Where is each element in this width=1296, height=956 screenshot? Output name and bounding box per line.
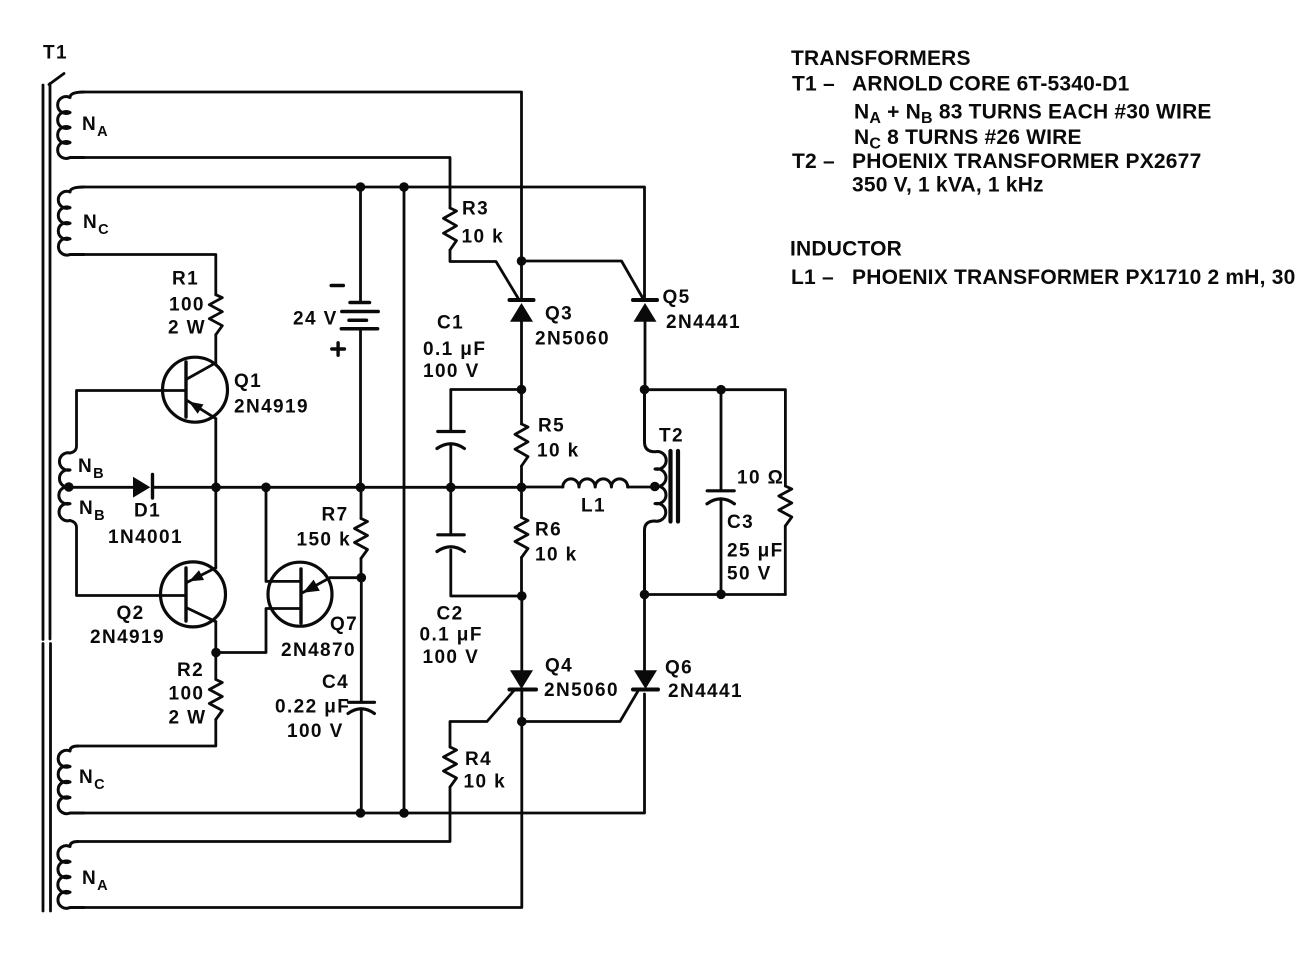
- svg-text:R3: R3: [462, 199, 489, 220]
- wire R5 bottom lead: [520, 466, 523, 487]
- svg-text:T1: T1: [43, 43, 68, 64]
- transformer T1 core line outer: [42, 85, 45, 911]
- svg-text:50 V: 50 V: [727, 564, 772, 585]
- T1 winding NC upper: [58, 187, 84, 255]
- node rail mid column junction: [399, 182, 409, 192]
- svg-text:Q4: Q4: [545, 656, 573, 677]
- wire Q4 anode lead: [520, 596, 523, 671]
- wire Q3 cathode row to Q5 gate: [522, 261, 644, 299]
- T1 winding NC lower: [58, 746, 84, 814]
- svg-text:2 W: 2 W: [168, 318, 206, 339]
- wire Q7 B2 lead: [266, 487, 301, 581]
- svg-text:0.1 μF: 0.1 μF: [423, 339, 486, 360]
- svg-text:0.22 μF: 0.22 μF: [275, 697, 350, 718]
- svg-text:INDUCTOR: INDUCTOR: [790, 238, 902, 261]
- wire center rail to battery column: [266, 486, 361, 489]
- wire Q1 emitter down to center rail: [214, 419, 217, 487]
- wire L1 to T2 centre tap: [628, 486, 655, 489]
- wire mid column rail to bottom rail: [403, 187, 406, 813]
- wire R1 to Q1 collector: [214, 335, 217, 363]
- transformer T1 core line inner: [49, 84, 52, 912]
- svg-text:PHOENIX TRANSFORMER PX1710 2 m: PHOENIX TRANSFORMER PX1710 2 mH, 30 A: [852, 266, 1296, 289]
- resistor R6: [515, 518, 528, 558]
- svg-text:C1: C1: [437, 313, 464, 334]
- wire Q7 emitter to R7-C4 node: [330, 576, 361, 579]
- wire R4 bottom to NA-lower top: [78, 787, 450, 842]
- battery minus sign: [331, 284, 343, 288]
- wire C1 bottom lead: [449, 446, 452, 488]
- svg-text:T2: T2: [659, 426, 684, 447]
- wire T2 bottom row: [645, 593, 786, 596]
- wire Q5 gate diagonal done above; Q5 cathode lead in rail: [643, 295, 646, 300]
- wire Q4 cathode lead: [520, 690, 523, 722]
- wire C3 top lead: [720, 390, 723, 491]
- wire R2 top lead: [214, 653, 217, 680]
- wire Q2 emitter up to center rail: [214, 487, 217, 568]
- transformer T2 primary winding: [645, 390, 667, 595]
- transistor Q7: [268, 562, 332, 626]
- wire C3 bottom lead: [720, 501, 723, 595]
- svg-text:350 V, 1 kVA, 1 kHz: 350 V, 1 kVA, 1 kHz: [852, 174, 1044, 197]
- wire Q3 anode lead: [520, 322, 523, 390]
- transistor Q2: [161, 562, 226, 627]
- svg-text:NC: NC: [83, 212, 109, 238]
- node bottom rail mid column junction: [399, 808, 409, 818]
- svg-text:10 Ω: 10 Ω: [737, 468, 784, 489]
- svg-text:C4: C4: [322, 672, 349, 693]
- svg-text:R4: R4: [465, 749, 492, 770]
- node C3 top junction: [716, 385, 726, 395]
- wire NC-top rail to Q5 cathode: [84, 187, 645, 295]
- svg-text:R2: R2: [177, 660, 204, 681]
- wire Q4 cathode row to Q6 gate: [522, 691, 638, 722]
- wire Q4 cathode column to NA-lower bottom: [84, 726, 522, 908]
- svg-text:10 k: 10 k: [535, 545, 578, 566]
- node T2 top junction: [640, 385, 650, 395]
- svg-text:C2: C2: [437, 604, 464, 625]
- wire R6 top lead: [520, 487, 523, 518]
- resistor R5: [515, 424, 528, 466]
- node Q4 cathode row junction: [517, 717, 527, 727]
- wire Q2 base to NB lower: [70, 521, 184, 596]
- thyristor Q5: [633, 300, 657, 322]
- svg-text:Q3: Q3: [545, 304, 573, 325]
- resistor R2: [209, 680, 222, 720]
- wire center rail to L1: [522, 486, 563, 489]
- svg-text:L1: L1: [581, 496, 606, 517]
- svg-text:2N4441: 2N4441: [666, 312, 741, 333]
- svg-text:2N5060: 2N5060: [535, 329, 610, 350]
- svg-text:2N4919: 2N4919: [234, 397, 309, 418]
- diode D1: [133, 475, 153, 499]
- battery 24V: [341, 303, 378, 329]
- battery plus sign: [332, 343, 345, 355]
- svg-text:2N4919: 2N4919: [90, 627, 165, 648]
- svg-text:10 k: 10 k: [462, 227, 505, 248]
- wire battery positive lead to center rail: [359, 329, 362, 487]
- svg-text:R1: R1: [172, 269, 199, 290]
- node R5-R6 junction: [517, 483, 527, 493]
- node battery bottom junction: [356, 483, 366, 493]
- svg-text:10 k: 10 k: [464, 772, 507, 793]
- svg-text:Q2: Q2: [117, 603, 145, 624]
- svg-text:D1: D1: [134, 501, 161, 522]
- svg-text:NA + NB 83 TURNS EACH #30 WIRE: NA + NB 83 TURNS EACH #30 WIRE: [854, 101, 1212, 128]
- wire R3 bottom to Q3 gate: [450, 250, 518, 298]
- wire Q2 collector to Q7 B1: [216, 609, 301, 653]
- wire center rail to Q7 B2 column: [216, 486, 266, 489]
- svg-text:NC: NC: [79, 767, 105, 793]
- node R7 C4 Q7-emitter junction: [357, 573, 367, 583]
- svg-text:1N4001: 1N4001: [108, 527, 183, 548]
- svg-text:NB: NB: [79, 498, 105, 524]
- wire bottom rail NC-lower to Q6 cathode: [84, 694, 645, 813]
- T1 winding NA lower: [58, 842, 84, 909]
- node C1 bottom junction: [446, 483, 456, 493]
- wire R6 bottom lead: [520, 558, 523, 597]
- T1 winding NB lower: [59, 487, 70, 521]
- svg-text:2N4870: 2N4870: [281, 640, 356, 661]
- resistor R1: [209, 295, 222, 335]
- svg-text:24 V: 24 V: [293, 309, 338, 330]
- svg-text:NA: NA: [82, 868, 108, 894]
- wire T2 top row to 10ohm top: [645, 390, 786, 486]
- capacitor C4: [348, 702, 375, 713]
- capacitor C1: [437, 432, 464, 449]
- T1 winding NB upper: [59, 453, 70, 487]
- svg-text:PHOENIX TRANSFORMER PX2677: PHOENIX TRANSFORMER PX2677: [852, 150, 1201, 173]
- node bottom rail battery column junction: [356, 808, 366, 818]
- node rail battery top junction: [356, 182, 366, 192]
- resistor R3: [444, 208, 457, 250]
- node T2 centre tap: [650, 482, 660, 492]
- transistor Q1: [163, 357, 228, 422]
- svg-text:T1 –: T1 –: [792, 73, 835, 96]
- resistor R7: [355, 519, 368, 559]
- node NB junction dot: [64, 482, 74, 492]
- svg-text:100: 100: [169, 295, 205, 316]
- thyristor Q6: [633, 670, 658, 689]
- wire R7 top lead: [360, 487, 363, 519]
- resistor R4: [444, 747, 457, 787]
- svg-text:R6: R6: [535, 520, 562, 541]
- wire NC-bottom to R1 top: [84, 255, 216, 295]
- wire R5 top lead: [520, 390, 523, 425]
- wire Q4 gate to R4: [450, 691, 514, 748]
- svg-text:2N5060: 2N5060: [544, 680, 619, 701]
- svg-text:L1 –: L1 –: [791, 266, 834, 289]
- wire center rail battery to C1 column (crosses mid column): [361, 486, 451, 489]
- svg-text:NB: NB: [78, 456, 104, 482]
- wire R7 bottom lead: [360, 559, 363, 578]
- wire Q3 cathode lead: [520, 261, 523, 300]
- svg-text:0.1 μF: 0.1 μF: [420, 625, 483, 646]
- wire C4 top lead: [360, 578, 363, 702]
- wire Q5 anode lead: [644, 322, 647, 390]
- node Q7 B2 junction: [261, 483, 271, 493]
- node Q2 collector junction: [211, 648, 221, 658]
- svg-text:Q6: Q6: [665, 658, 693, 679]
- node Q3 cathode junction: [517, 256, 527, 266]
- wire C4 bottom lead: [360, 711, 363, 814]
- svg-text:R5: R5: [538, 416, 565, 437]
- wire NA-bottom to R3 top: [84, 158, 450, 209]
- svg-text:100 V: 100 V: [287, 721, 344, 742]
- node R6 bottom / C2 row junction: [517, 591, 527, 601]
- svg-text:150 k: 150 k: [297, 530, 352, 551]
- svg-text:100: 100: [169, 684, 205, 705]
- inductor L1: [563, 479, 628, 487]
- svg-text:10 k: 10 k: [537, 441, 580, 462]
- svg-text:100 V: 100 V: [423, 361, 480, 382]
- wire center rail NB to D1 anode: [69, 486, 134, 489]
- svg-text:2N4441: 2N4441: [668, 681, 743, 702]
- capacitor C2: [437, 535, 464, 552]
- transformer T2 core lines: [671, 451, 679, 522]
- capacitor C3: [707, 491, 734, 504]
- wire D1 cathode to Q1 emitter node: [153, 486, 217, 489]
- wire center rail C1 to R5 junction: [451, 486, 522, 489]
- node C3 bottom junction: [716, 590, 726, 600]
- T1 winding NA upper: [58, 92, 84, 158]
- svg-text:NC 8 TURNS #26 WIRE: NC 8 TURNS #26 WIRE: [854, 126, 1082, 153]
- wire 10ohm bottom lead: [784, 526, 787, 595]
- wire C2 top lead: [449, 487, 452, 535]
- svg-text:ARNOLD CORE 6T-5340-D1: ARNOLD CORE 6T-5340-D1: [852, 73, 1130, 96]
- wire Q3 anode row to C1 top: [451, 390, 522, 432]
- svg-text:Q1: Q1: [234, 371, 262, 392]
- svg-text:100 V: 100 V: [423, 647, 480, 668]
- svg-text:25 μF: 25 μF: [727, 541, 784, 562]
- wire Q6 anode lead: [643, 595, 646, 671]
- svg-text:T2 –: T2 –: [792, 150, 835, 173]
- svg-text:R7: R7: [322, 505, 349, 526]
- svg-text:C3: C3: [727, 512, 754, 533]
- wire battery negative lead: [359, 187, 362, 302]
- node Q1 emitter junction: [211, 483, 221, 493]
- node T2 bottom junction: [640, 590, 650, 600]
- node Q3 anode / C1 row junction: [517, 385, 527, 395]
- resistor 10 ohm: [779, 486, 792, 526]
- wire Q1 base to NB upper: [71, 391, 184, 453]
- wire NA-top to Q3 anode column: [84, 92, 522, 256]
- thyristor Q4: [510, 670, 537, 689]
- thyristor Q3: [510, 300, 534, 322]
- svg-text:TRANSFORMERS: TRANSFORMERS: [791, 47, 971, 70]
- transformer T1 core top tick: [49, 74, 64, 85]
- wire C2 row to C2 bottom: [451, 550, 522, 596]
- svg-text:Q7: Q7: [330, 614, 358, 635]
- svg-text:Q5: Q5: [663, 287, 691, 308]
- svg-text:NA: NA: [82, 114, 108, 140]
- svg-text:2 W: 2 W: [169, 708, 207, 729]
- wire Q2 collector to R2: [214, 622, 217, 653]
- wire R2 to NC lower winding: [78, 720, 216, 747]
